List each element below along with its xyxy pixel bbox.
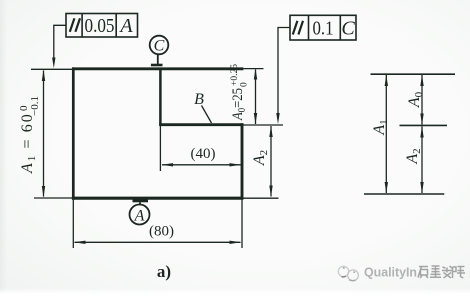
leader for surface B xyxy=(202,106,212,124)
arrow right diagram A2 top xyxy=(420,126,423,138)
svg-text:A1 = 60: A1 = 60 xyxy=(19,112,38,174)
extension line: left edge extended down xyxy=(72,200,74,248)
svg-text:A2: A2 xyxy=(251,150,270,166)
label A0 right diagram rotated xyxy=(406,91,425,108)
svg-text:0.05: 0.05 xyxy=(85,15,115,37)
arrow FCF2 leader xyxy=(276,113,279,124)
arrow right diagram A1 bottom xyxy=(385,182,388,193)
dimension line A0=25 xyxy=(255,70,257,125)
part outline: step surface B xyxy=(159,123,243,126)
svg-text:A: A xyxy=(134,208,145,225)
arrow A0 bottom xyxy=(254,113,257,124)
part outline: left edge xyxy=(72,67,75,199)
FCF1 leader xyxy=(54,25,66,60)
dimension line (80) xyxy=(75,241,241,243)
svg-text:(40): (40) xyxy=(191,146,216,162)
svg-text:A0: A0 xyxy=(406,91,425,108)
dimension line (40) xyxy=(162,164,241,166)
part outline: step vertical edge xyxy=(159,68,162,126)
datum C base bar xyxy=(151,64,163,67)
arrow (80) left xyxy=(74,241,86,244)
extension line: step surface extended right xyxy=(244,124,284,126)
extension line: bottom edge extended right xyxy=(244,197,279,199)
watermark logo xyxy=(338,266,358,280)
label A2 right diagram rotated xyxy=(404,148,423,164)
dimension line A2 (left view) xyxy=(270,126,272,197)
extension line: A1 bottom xyxy=(34,197,72,199)
feature control frame 2 box xyxy=(290,15,356,40)
parallelism symbol FCF1 xyxy=(70,18,75,32)
right chain diagram: middle line xyxy=(400,124,448,126)
svg-text:a): a) xyxy=(157,262,171,281)
datum A stem xyxy=(139,202,141,204)
parallelism symbol FCF2 xyxy=(293,21,298,35)
right chain diagram: A1 dimension line xyxy=(385,75,387,193)
arrow FCF1 leader xyxy=(52,58,55,69)
part outline: bottom edge xyxy=(72,197,244,200)
arrow right diagram A2 bottom xyxy=(420,182,423,193)
dimension line A1=60 xyxy=(43,71,45,197)
arrow A2 top xyxy=(269,126,272,137)
arrow A0 top xyxy=(254,68,257,79)
FCF2 leader xyxy=(278,28,290,118)
svg-text:−0.1: −0.1 xyxy=(29,96,41,116)
part outline: right edge xyxy=(241,123,244,199)
feature control frame 1 box xyxy=(66,14,138,38)
watermark text 质量学院 approximated strokes xyxy=(418,266,465,278)
datum A base bar xyxy=(133,199,149,202)
svg-text:+0.25: +0.25 xyxy=(230,64,240,86)
datum C circle xyxy=(150,36,169,55)
datum A circle xyxy=(130,205,150,225)
extension line: right edge extended down xyxy=(241,200,243,249)
right chain diagram: bottom line xyxy=(364,193,444,195)
right chain diagram: top line xyxy=(371,73,456,75)
svg-text:A2: A2 xyxy=(404,148,423,164)
arrow A1 top xyxy=(42,70,45,82)
svg-text:C: C xyxy=(341,18,355,40)
svg-text:A: A xyxy=(118,15,133,37)
svg-text:(80): (80) xyxy=(149,224,174,240)
datum C stem xyxy=(157,54,159,64)
svg-text:A0=25: A0=25 xyxy=(230,88,248,121)
arrow (80) right xyxy=(230,241,242,244)
extension line: top surface extended right xyxy=(243,68,263,70)
extension line: A1 top xyxy=(31,68,72,70)
svg-text:C: C xyxy=(154,38,165,55)
label A1 right diagram rotated xyxy=(371,119,390,135)
arrow right diagram A1 top xyxy=(385,75,388,86)
label A2 rotated (left view) xyxy=(251,150,270,166)
label A1=60 0/-0.1 rotated xyxy=(18,96,41,174)
arrow right diagram A0 bottom xyxy=(420,114,423,125)
svg-text:B: B xyxy=(194,91,204,108)
extension line: step vertical extended down xyxy=(159,126,161,172)
svg-text:0.1: 0.1 xyxy=(313,18,334,40)
right chain diagram: A2 dimension line xyxy=(421,126,423,193)
arrow A2 bottom xyxy=(269,186,272,197)
arrow (40) right xyxy=(230,163,242,166)
svg-text:QualityIn: QualityIn xyxy=(364,265,417,280)
svg-text:0: 0 xyxy=(240,82,250,87)
label A0=25 +0.25/0 rotated xyxy=(230,64,250,121)
arrow right diagram A0 top xyxy=(420,75,423,86)
arrow (40) left xyxy=(162,163,174,166)
svg-text:A1: A1 xyxy=(371,119,390,135)
right chain diagram: A0 dimension line xyxy=(421,75,423,125)
arrow A1 bottom xyxy=(42,186,45,198)
part outline: top edge xyxy=(72,67,243,70)
